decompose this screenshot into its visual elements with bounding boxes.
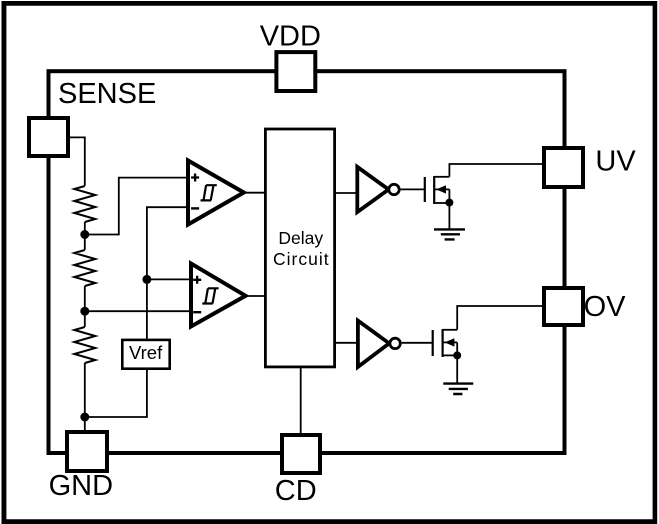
U1 plus sign: [191, 174, 199, 182]
U1 hysteresis symbol: [201, 185, 217, 200]
node Q1 source junction dot: [445, 199, 453, 207]
svg-text:UV: UV: [595, 145, 636, 177]
svg-text:CD: CD: [275, 475, 317, 507]
resistor R3: [74, 327, 95, 363]
Q1 drain stub: [434, 176, 449, 178]
op-amp U1 comparator: [188, 161, 244, 225]
pin SENSE box: [29, 118, 68, 156]
Q2 body stub: [443, 341, 458, 343]
wire delay circuit to inverter U5: [335, 342, 358, 344]
node tap1 junction dot: [80, 230, 89, 239]
inverter U5: [358, 321, 389, 367]
transistor Q2 channel bar: [442, 329, 444, 357]
svg-text:Vref: Vref: [129, 342, 163, 363]
wire tap2 to comparator U2 - input: [85, 310, 191, 312]
U2 hysteresis symbol: [202, 288, 218, 303]
wire R2 to R3: [84, 286, 86, 327]
wire delay circuit to inverter U4: [335, 192, 357, 194]
wire Q2 drain to OV pin: [457, 306, 544, 330]
ground symbol GND2: [443, 384, 473, 394]
wire Vref node to comparator U2 + input: [147, 278, 191, 280]
Vref box: [122, 340, 169, 369]
svg-text:OV: OV: [584, 291, 627, 323]
Q1 body stub: [434, 188, 449, 190]
U1 minus sign: [191, 207, 199, 209]
IC boundary rectangle: [49, 71, 565, 453]
pin OV box: [544, 288, 583, 325]
wire Q1 source to ground: [448, 189, 450, 229]
wire delay circuit to CD pin: [300, 367, 302, 437]
wire tap1 to comparator U1 + input: [85, 178, 187, 235]
pin GND box: [67, 432, 107, 471]
Q2 body arrow: [445, 338, 455, 346]
resistor R1: [74, 186, 95, 222]
wire R3 to GND pin: [84, 363, 86, 434]
wire Q2 source to ground: [456, 342, 458, 383]
wire U5 to transistor Q2 gate: [402, 342, 433, 344]
svg-text:GND: GND: [49, 470, 113, 502]
wire Q1 drain to UV pin: [449, 164, 544, 177]
U2 plus sign: [193, 276, 201, 284]
wire R1 to R2: [84, 222, 86, 250]
node Q2 source junction dot: [453, 351, 461, 359]
wire Vref to comparator U1 - input: [147, 207, 187, 338]
ground symbol GND1: [434, 229, 465, 239]
svg-text:SENSE: SENSE: [58, 78, 156, 110]
U5 output bubble: [390, 338, 400, 348]
pin CD box: [282, 435, 320, 473]
wire SENSE to resistor chain: [70, 137, 85, 186]
svg-text:Circuit: Circuit: [273, 249, 330, 269]
Q1 body arrow: [436, 185, 446, 193]
wire U1 output to delay circuit: [244, 192, 265, 194]
pin UV box: [544, 148, 583, 187]
transistor Q1 gate bar: [424, 177, 426, 202]
node GND junction dot: [80, 413, 89, 422]
delay circuit block U3: [265, 129, 334, 367]
transistor Q2 gate bar: [432, 330, 434, 356]
op-amp U2 comparator: [191, 264, 246, 327]
pin VDD box: [276, 52, 315, 91]
Q2 source stub: [443, 354, 458, 356]
wire Vref return to GND node: [85, 370, 147, 417]
transistor Q1 channel bar: [433, 176, 435, 204]
U2 minus sign: [193, 311, 201, 313]
svg-text:VDD: VDD: [260, 20, 321, 52]
wire U2 output to delay circuit: [246, 295, 265, 297]
Q2 drain stub: [443, 329, 458, 331]
svg-text:Delay: Delay: [278, 228, 323, 248]
resistor R2: [74, 250, 95, 286]
node Vref junction dot: [142, 275, 151, 284]
U4 output bubble: [389, 184, 399, 194]
wire U4 to transistor Q1 gate: [401, 188, 425, 190]
Q1 source stub: [434, 202, 449, 204]
node tap2 junction dot: [80, 307, 89, 316]
inverter U4: [357, 167, 388, 212]
